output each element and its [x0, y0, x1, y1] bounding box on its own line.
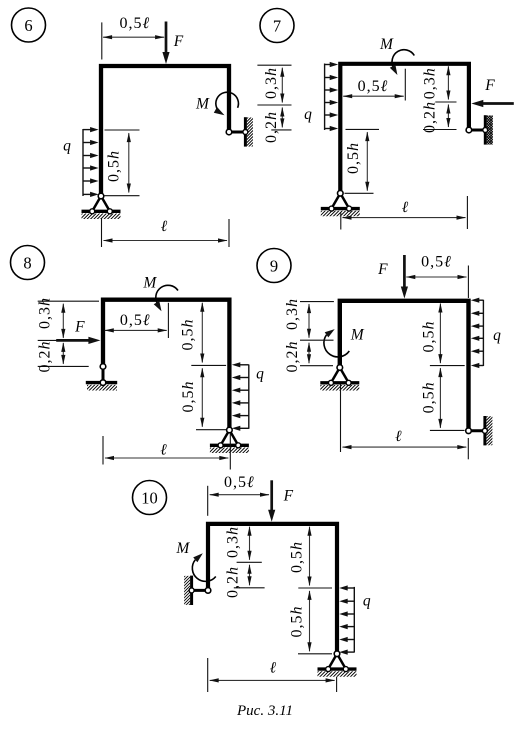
dimension l extension lines (frame 6): [101, 219, 103, 248]
svg-text:0,3h: 0,3h: [263, 67, 280, 99]
dimension 0,2h (frame 9): [308, 343, 310, 364]
dimension l extension lines (frame 9): [340, 384, 342, 452]
svg-text:0,5h: 0,5h: [421, 321, 438, 353]
pinned roller support (frame 9 bottom left): [331, 368, 340, 383]
circled number 10: [133, 481, 167, 515]
dimension 0,2h left (frame 7): [281, 108, 283, 128]
svg-text:0,5h: 0,5h: [345, 142, 362, 174]
svg-text:0,5ℓ: 0,5ℓ: [421, 254, 452, 271]
svg-text:F: F: [377, 261, 388, 278]
inner dimension extension lines (frame 10): [237, 561, 262, 563]
svg-text:ℓ: ℓ: [161, 218, 168, 235]
moment M arc (frame 8): [156, 285, 178, 304]
dimension l extension lines (frame 7): [340, 213, 342, 230]
dimension 0,5l (frame 10): [210, 494, 269, 496]
dimension 0,5h lower (frame 10): [309, 591, 311, 651]
svg-text:0,5ℓ: 0,5ℓ: [358, 78, 389, 95]
dimension l (frame 10): [210, 679, 335, 681]
dimension 0,5l (frame 9): [406, 276, 466, 278]
distributed load q (frame 6): [82, 129, 84, 196]
force F (frame 8): [56, 339, 89, 342]
dimension 0,2h (frame 8): [62, 343, 64, 364]
svg-text:Рис. 3.11: Рис. 3.11: [236, 703, 293, 719]
moment M arc (frame 10): [192, 560, 215, 582]
svg-text:ℓ: ℓ: [270, 660, 277, 677]
left dimension extension lines (frame 7): [257, 64, 291, 66]
dimension 0,5h lower (frame 8): [201, 368, 203, 427]
svg-text:0,2h: 0,2h: [284, 341, 301, 373]
distributed load q (frame 8): [248, 365, 250, 429]
svg-text:0,5h: 0,5h: [180, 381, 197, 413]
svg-text:0,5h: 0,5h: [289, 541, 306, 573]
svg-text:0,5h: 0,5h: [289, 606, 306, 638]
svg-text:0,3h: 0,3h: [284, 298, 301, 330]
inner dimension extension lines (frame 7): [435, 101, 456, 103]
svg-text:0,2h: 0,2h: [263, 111, 280, 143]
pinned roller support (frame 8 bottom right): [221, 430, 230, 445]
dimension 0,5h upper extension (frame 10): [298, 587, 332, 589]
wall link support (frame 6 right): [229, 131, 245, 134]
svg-text:0,2h: 0,2h: [225, 566, 242, 598]
svg-text:ℓ: ℓ: [395, 428, 402, 445]
dimension 0,2h inner (frame 7): [447, 105, 449, 128]
svg-text:F: F: [173, 33, 184, 50]
dimension 0,5l extension line (frame 6): [101, 22, 103, 59]
svg-text:9: 9: [270, 256, 278, 275]
frame members (frame 6): [101, 66, 229, 196]
dimension l (frame 9): [343, 446, 467, 448]
dimension l extension lines (frame 10): [207, 658, 209, 692]
svg-text:0,3h: 0,3h: [421, 67, 438, 99]
dimension 0,5h upper (frame 8): [201, 303, 203, 363]
distributed load q (frame 9): [482, 300, 484, 366]
frame members (frame 7): [340, 64, 469, 194]
dimension 0,5h (frame 6): [128, 133, 130, 192]
svg-text:0,3h: 0,3h: [37, 297, 54, 329]
left dimension extension lines (frame 8): [38, 300, 99, 302]
distributed load q (frame 10): [353, 587, 355, 653]
svg-text:ℓ: ℓ: [402, 199, 409, 216]
frame 10 group: [133, 474, 371, 692]
svg-text:F: F: [74, 319, 85, 336]
circled number 6: [12, 8, 46, 42]
circled number 7: [260, 9, 294, 43]
dimension 0,2h (frame 10): [249, 565, 251, 586]
svg-text:0,5h: 0,5h: [180, 319, 197, 351]
wall link support (frame 10 left): [192, 589, 208, 592]
frame members (frame 10): [208, 524, 337, 654]
svg-text:M: M: [195, 96, 210, 113]
circled number 8: [11, 246, 45, 280]
pinned roller support (frame 10 bottom right): [328, 654, 337, 669]
dimension l extension lines (frame 8): [102, 436, 104, 465]
dimension 0,5h (frame 7 lower left): [366, 132, 368, 191]
moment M arc (frame 9): [324, 335, 349, 357]
svg-text:0,5ℓ: 0,5ℓ: [224, 474, 255, 491]
svg-text:q: q: [63, 138, 71, 155]
svg-text:10: 10: [141, 488, 158, 507]
svg-text:M: M: [379, 36, 394, 53]
frame members (frame 8): [103, 300, 229, 430]
dimension 0,5l extension line (frame 10): [207, 486, 209, 516]
pinned roller support (frame 6 bottom): [92, 196, 101, 211]
dimension 0,3h (frame 8): [62, 304, 64, 338]
dimension 0,5h upper (frame 10): [309, 527, 311, 586]
dimension 0,5h extension lines (frame 7 lower left): [346, 128, 380, 130]
dimension l (frame 6): [104, 240, 228, 242]
pinned roller support (frame 7 bottom): [332, 193, 341, 208]
circled number 9: [257, 249, 291, 283]
dimension 0,5h lower (frame 9): [439, 368, 441, 428]
distributed load q (frame 7): [324, 64, 326, 131]
dimension 0,5h upper (frame 9): [439, 304, 441, 364]
force F (frame 6): [165, 22, 168, 54]
frame 9 group: [257, 249, 501, 460]
frame members (frame 9): [340, 301, 469, 431]
svg-text:7: 7: [273, 16, 281, 35]
svg-text:F: F: [484, 77, 495, 94]
svg-text:0,5h: 0,5h: [421, 381, 438, 413]
svg-text:q: q: [493, 327, 501, 344]
svg-text:M: M: [350, 327, 365, 344]
force F (frame 9): [403, 255, 406, 288]
svg-text:6: 6: [24, 16, 32, 35]
svg-text:0,5h: 0,5h: [105, 150, 122, 182]
force F (frame 10): [270, 480, 273, 511]
dimension l (frame 8): [105, 457, 228, 459]
dimension 0,5h extension lines (frame 6): [105, 129, 140, 131]
svg-text:M: M: [142, 275, 157, 292]
dimension 0,3h (frame 10): [249, 527, 251, 560]
dimension 0,5l (frame 7): [343, 95, 404, 97]
moment M arc (frame 7): [392, 50, 414, 68]
svg-text:q: q: [304, 106, 312, 123]
dimension 0,3h inner (frame 7): [447, 66, 449, 99]
link support (frame 8 bottom left): [102, 367, 105, 383]
svg-text:ℓ: ℓ: [160, 442, 167, 459]
dimension 0,5l (frame 8): [105, 329, 167, 331]
inner dimension extension lines (frame 9): [430, 365, 465, 367]
dimension l (frame 7): [343, 217, 466, 219]
wall link support (frame 7 right): [469, 129, 485, 132]
svg-text:0,3h: 0,3h: [225, 526, 242, 558]
svg-text:M: M: [175, 540, 190, 557]
svg-text:0,2h: 0,2h: [421, 101, 438, 133]
svg-text:8: 8: [23, 253, 31, 272]
frame 6 group: [12, 8, 254, 247]
svg-text:0,5ℓ: 0,5ℓ: [120, 312, 151, 329]
frame 7 group: [257, 9, 513, 230]
force F (frame 7): [482, 102, 514, 105]
moment M arc (frame 6): [216, 92, 239, 112]
frame 8 group: [11, 246, 265, 470]
svg-text:0,5ℓ: 0,5ℓ: [119, 15, 150, 32]
svg-text:0,2h: 0,2h: [37, 341, 54, 373]
svg-text:q: q: [363, 593, 371, 610]
dimension 0,3h left (frame 7): [281, 68, 283, 103]
dimension 0,3h (frame 9): [308, 304, 310, 338]
dimension 0,5l (frame 6): [103, 36, 164, 38]
svg-text:F: F: [283, 488, 294, 505]
svg-text:q: q: [256, 366, 264, 383]
inner dimension extension lines (frame 8): [191, 364, 226, 366]
wall link support (frame 9 bottom right): [469, 429, 485, 432]
left dimension extension lines (frame 9): [300, 301, 334, 303]
